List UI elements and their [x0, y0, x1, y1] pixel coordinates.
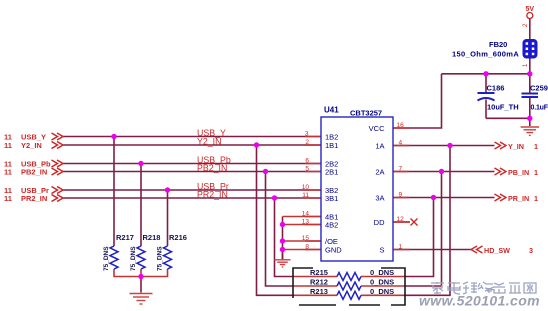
node 4B2 tie: [280, 222, 285, 227]
U41 left pin names: [325, 132, 342, 254]
node USB_Y / R217: [111, 134, 116, 139]
svg-text:3B1: 3B1: [325, 194, 338, 203]
svg-text:75_DNS: 75_DNS: [157, 246, 164, 271]
svg-text:11: 11: [4, 194, 12, 203]
resistor R213: [337, 291, 361, 299]
wire Y2_IN row: [63, 144, 321, 146]
svg-text:www.520101.com: www.520101.com: [419, 293, 540, 309]
node junction dots: [111, 71, 532, 279]
capacitor C186: [478, 93, 495, 101]
svg-text:U41: U41: [324, 106, 339, 115]
svg-text:Y2_IN: Y2_IN: [21, 141, 42, 150]
power port 5V: [527, 13, 533, 19]
wire terminator bottom bus: [114, 269, 168, 277]
node PR_IN tap: [431, 195, 436, 200]
svg-text:GND: GND: [325, 245, 342, 254]
U41 left pin numbers: [302, 130, 310, 250]
node /OE tie: [280, 238, 285, 243]
svg-text:HD_SW: HD_SW: [484, 246, 510, 255]
wire R216 tap vertical: [167, 190, 169, 246]
output chevrons right: [471, 142, 506, 253]
svg-text:3A: 3A: [375, 193, 384, 202]
wire Y_IN to R213 vertical: [404, 146, 450, 296]
svg-text:0.1uF: 0.1uF: [531, 105, 548, 112]
wire PR2_IN row: [63, 197, 321, 199]
U41 right pin stubs: [393, 128, 409, 250]
wire PR2_IN to R215 vertical: [275, 198, 295, 277]
ground below C259: [521, 127, 539, 135]
svg-text:C186: C186: [487, 84, 505, 93]
svg-text:R216: R216: [169, 233, 187, 242]
svg-text:7: 7: [399, 165, 403, 172]
svg-text:75_DNS: 75_DNS: [103, 246, 110, 271]
resistor R218: [137, 246, 145, 269]
ground below terminator bus: [130, 294, 153, 305]
capacitor C259: [522, 94, 539, 98]
wire R217 tap vertical: [113, 137, 115, 247]
svg-text:PB2_IN: PB2_IN: [21, 167, 47, 176]
svg-text:8: 8: [305, 243, 309, 250]
wire C186 top: [485, 74, 487, 93]
wire PR_IN to R215 vertical: [404, 198, 434, 277]
svg-text:1: 1: [534, 168, 538, 177]
node PR2_IN tap: [272, 195, 277, 200]
U41 right pin names: [369, 124, 385, 255]
svg-text:CBT3257: CBT3257: [350, 109, 382, 118]
svg-text:5V: 5V: [526, 6, 535, 13]
net label USB_Y: [197, 128, 231, 200]
wire cap ground rail: [486, 118, 530, 126]
svg-text:3: 3: [305, 130, 309, 137]
svg-text:R215: R215: [310, 268, 328, 277]
resistor R212: [337, 282, 361, 290]
wire C259 bottom: [529, 97, 531, 118]
svg-text:R218: R218: [143, 233, 161, 242]
wire USB_Pb row: [63, 163, 321, 165]
svg-text:VCC: VCC: [369, 124, 385, 133]
wire 5V to FB20: [529, 19, 531, 40]
svg-text:9: 9: [399, 191, 403, 198]
svg-text:150_Ohm_600mA: 150_Ohm_600mA: [452, 50, 519, 59]
svg-text:16: 16: [397, 122, 405, 129]
node Y_IN tap: [447, 143, 452, 148]
svg-text:1A: 1A: [375, 141, 384, 150]
node GND tie: [280, 247, 285, 252]
wire FB20 to C259: [529, 58, 531, 94]
wire bus to ground stem: [140, 277, 142, 293]
svg-text:1: 1: [534, 142, 538, 151]
svg-text:FB20: FB20: [489, 40, 507, 49]
node terminator bus: [138, 274, 143, 279]
svg-text:PR2_IN: PR2_IN: [197, 189, 228, 199]
wire C186 bottom: [485, 100, 487, 119]
wire USB_Y row: [63, 136, 321, 138]
svg-text:2A: 2A: [375, 167, 384, 176]
svg-text:PR_IN: PR_IN: [508, 194, 529, 203]
op-amp U41 IC body CBT3257: [321, 117, 393, 261]
port Y_IN output: [484, 142, 538, 255]
U41 right pin numbers: [397, 122, 405, 251]
wire 1A output row: [393, 145, 495, 147]
svg-text:DD: DD: [374, 218, 385, 227]
node Y2_IN tap: [254, 142, 259, 147]
svg-text:Y_IN: Y_IN: [508, 142, 524, 151]
wire PB2_IN to R212 vertical: [266, 172, 295, 287]
svg-text:3: 3: [529, 246, 533, 255]
svg-text:11: 11: [302, 192, 309, 199]
svg-text:5: 5: [305, 165, 309, 172]
svg-text:Y2_IN: Y2_IN: [197, 136, 221, 146]
svg-text:R217: R217: [116, 233, 134, 242]
svg-text:1: 1: [534, 194, 538, 203]
svg-text:10: 10: [302, 184, 310, 191]
svg-text:R213: R213: [310, 287, 328, 296]
resistor R217: [110, 246, 118, 269]
wire DD stub: [393, 221, 410, 223]
ground below /OE GND tie: [282, 251, 284, 260]
wire 2A output row: [393, 171, 495, 173]
wire power rail top: [442, 73, 530, 75]
resistor R215: [337, 273, 361, 281]
watermark chinese characters: [431, 282, 536, 294]
node USB_Pb / R218: [138, 161, 143, 166]
wire VCC to rail: [393, 74, 442, 128]
node PB_IN tap: [439, 169, 444, 174]
node C259 rail: [527, 71, 532, 76]
no-connect X on pin 12 DD: [411, 219, 418, 226]
svg-text:0_DNS: 0_DNS: [370, 287, 394, 296]
svg-text:0_DNS: 0_DNS: [370, 278, 394, 287]
resistor R216: [164, 246, 172, 269]
svg-text:4B2: 4B2: [325, 220, 338, 229]
node C186 rail: [483, 71, 488, 76]
wire R218 tap vertical: [140, 164, 142, 247]
wire PB_IN to R212 vertical: [404, 172, 442, 287]
svg-text:2B1: 2B1: [325, 167, 338, 176]
svg-text:14: 14: [302, 210, 310, 217]
node PB2_IN tap: [263, 169, 268, 174]
svg-text:1B1: 1B1: [325, 141, 338, 150]
svg-text:13: 13: [302, 218, 310, 225]
svg-text:PB_IN: PB_IN: [508, 168, 529, 177]
svg-text:11: 11: [4, 141, 12, 150]
svg-text:R212: R212: [310, 278, 328, 287]
ferrite bead FB20: [523, 40, 537, 59]
wire Y2_IN to R213 vertical: [257, 145, 295, 295]
wire USB_Pr row: [63, 189, 321, 191]
svg-text:6: 6: [305, 157, 309, 164]
svg-text:75_DNS: 75_DNS: [130, 246, 137, 271]
svg-text:S: S: [379, 245, 384, 254]
DNS group dashed box: [293, 268, 405, 305]
port USB_Y input: [4, 132, 51, 203]
svg-text:15: 15: [302, 235, 310, 242]
svg-text:0_DNS: 0_DNS: [370, 268, 394, 277]
svg-text:1: 1: [399, 243, 403, 250]
U41 left pin stubs: [305, 137, 321, 250]
wire 4B1/4B2//OE/GND tie: [282, 217, 284, 260]
svg-text:C259: C259: [530, 84, 548, 93]
svg-text:PR2_IN: PR2_IN: [21, 194, 47, 203]
svg-text:4: 4: [399, 139, 403, 146]
svg-text:12: 12: [397, 216, 405, 223]
wire 3A output row: [393, 197, 495, 199]
svg-text:10uF_TH: 10uF_TH: [487, 103, 519, 112]
wire PB2_IN row: [63, 171, 321, 173]
node C259 ground rail: [527, 116, 532, 121]
svg-text:PB2_IN: PB2_IN: [197, 163, 227, 173]
node USB_Pr / R216: [165, 187, 170, 192]
input chevrons left: [52, 133, 64, 202]
svg-text:11: 11: [4, 167, 12, 176]
wire S input row: [393, 249, 471, 251]
svg-text:2: 2: [305, 139, 309, 146]
